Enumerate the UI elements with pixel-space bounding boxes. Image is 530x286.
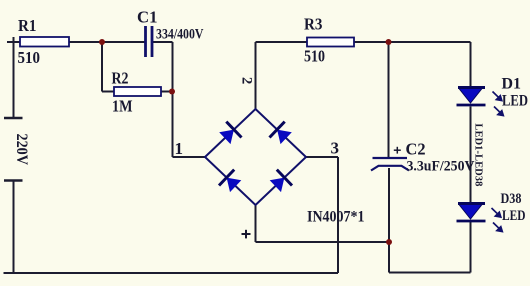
svg-text:R3: R3 xyxy=(304,15,323,34)
svg-text:R1: R1 xyxy=(18,16,37,35)
svg-text:1M: 1M xyxy=(112,97,133,116)
svg-text:2: 2 xyxy=(239,77,255,84)
svg-text:510: 510 xyxy=(304,47,325,66)
svg-text:D38: D38 xyxy=(501,191,522,207)
svg-text:C1: C1 xyxy=(137,8,158,27)
svg-text:LED: LED xyxy=(502,93,528,110)
svg-text:334/400V: 334/400V xyxy=(156,27,204,43)
svg-text:1: 1 xyxy=(175,139,184,158)
svg-text:3: 3 xyxy=(331,139,340,158)
svg-text:510: 510 xyxy=(18,48,41,67)
svg-text:IN4007*1: IN4007*1 xyxy=(307,209,365,226)
svg-text:D1: D1 xyxy=(502,76,522,93)
svg-text:LED: LED xyxy=(502,208,526,224)
svg-text:C2: C2 xyxy=(406,140,426,159)
svg-text:LED1-LED38: LED1-LED38 xyxy=(473,123,484,186)
svg-text:220V: 220V xyxy=(13,134,30,166)
svg-text:R2: R2 xyxy=(112,69,129,88)
svg-text:3.3uF/250V: 3.3uF/250V xyxy=(407,159,476,175)
